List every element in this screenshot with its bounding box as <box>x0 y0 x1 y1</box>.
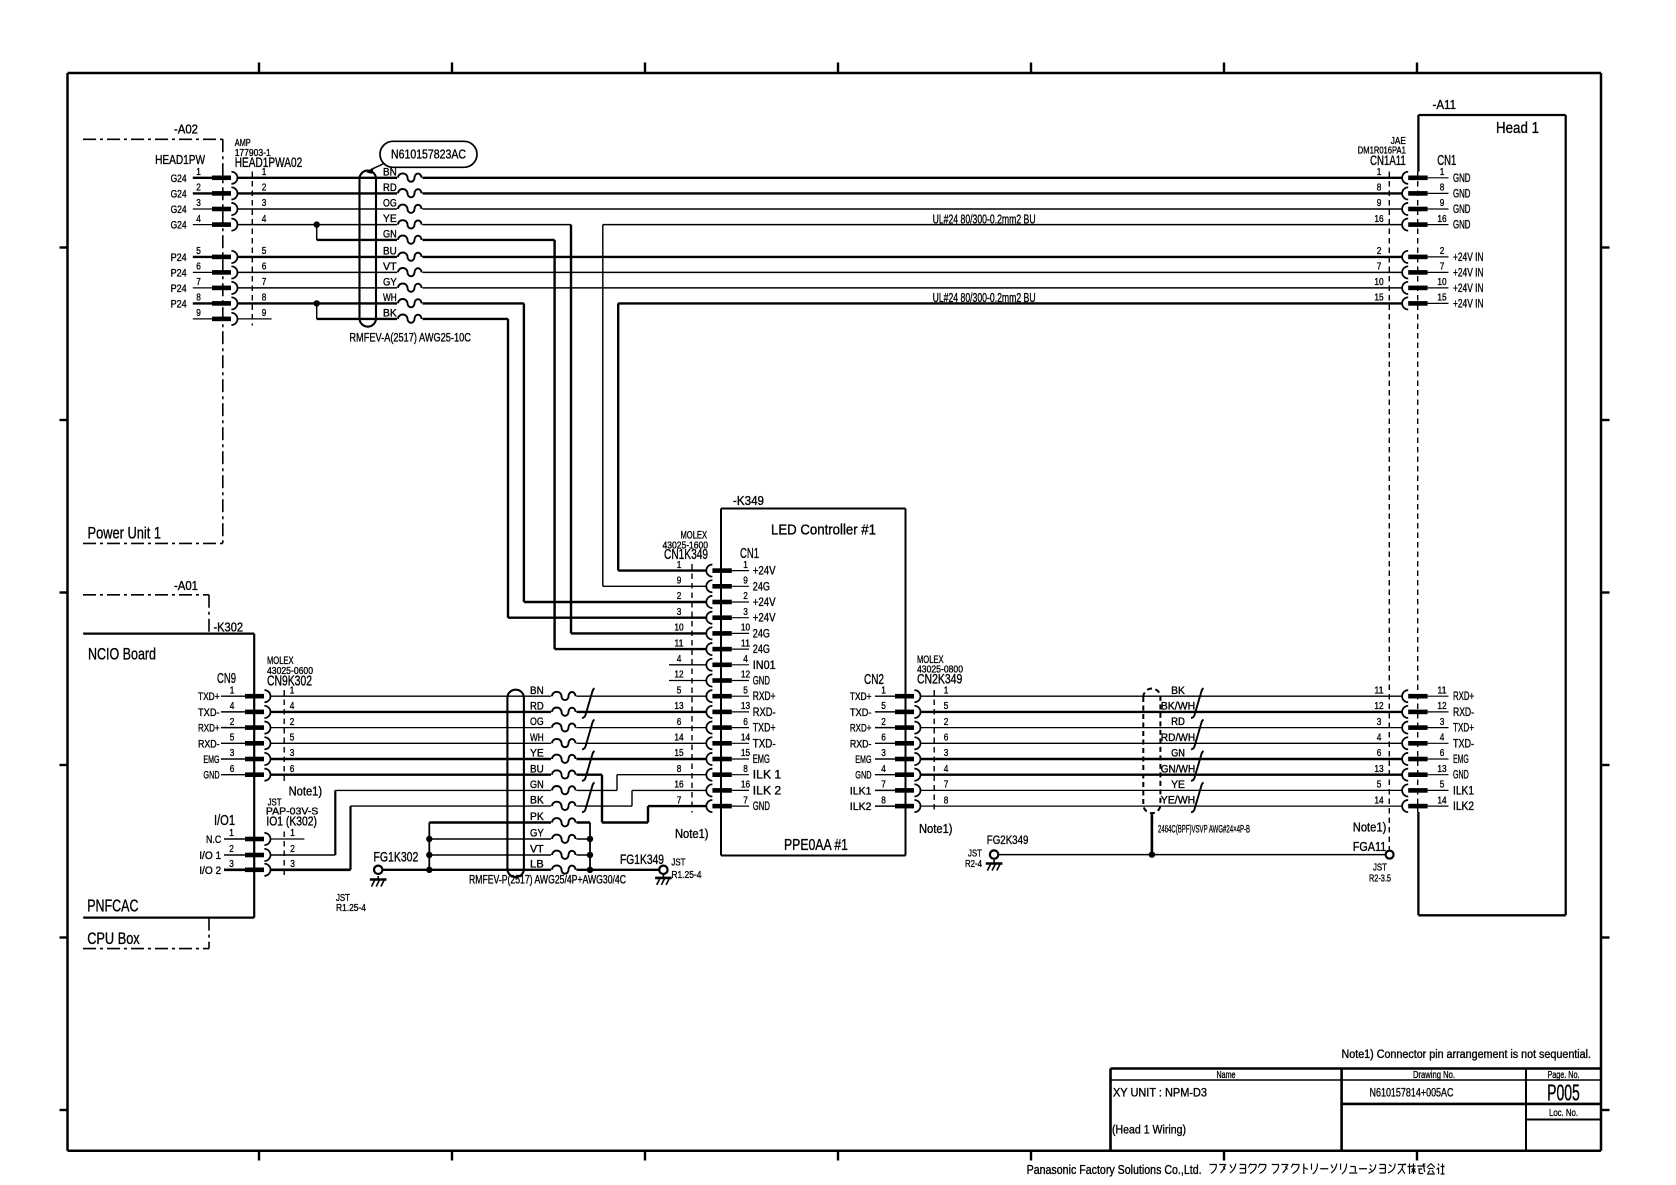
svg-text:PNFCAC: PNFCAC <box>87 896 138 916</box>
svg-text:16: 16 <box>1374 214 1383 225</box>
svg-text:Head 1: Head 1 <box>1496 120 1539 137</box>
wire CN1K349 pin1 lead <box>618 569 706 571</box>
svg-text:EMG: EMG <box>753 754 770 766</box>
connector HEAD1PWA02 pin 4 <box>171 214 267 232</box>
connector IO1 pin 1 <box>206 828 304 846</box>
svg-text:2: 2 <box>944 717 949 728</box>
wire CN1K349 pin10 lead <box>571 632 706 634</box>
svg-text:ILK2: ILK2 <box>850 801 872 813</box>
connector CN1K349 pin 2 <box>677 591 776 609</box>
svg-text:RD/WH: RD/WH <box>1161 732 1196 744</box>
connector CN1K349 pin 11 <box>674 638 770 656</box>
svg-text:6: 6 <box>262 262 267 273</box>
twisted pair slash (2464C) <box>1191 782 1204 812</box>
svg-text:WH: WH <box>383 292 397 304</box>
svg-text:N.C: N.C <box>206 834 221 846</box>
svg-text:15: 15 <box>674 748 683 759</box>
wire BU jog across <box>602 821 648 823</box>
svg-text:3: 3 <box>881 748 886 759</box>
connector HEAD1PWA02 pin 2 <box>171 183 267 201</box>
border tick marks bottom <box>259 1151 1417 1161</box>
connector CN2K349 pin 3 <box>855 748 948 766</box>
wire BK/WH (CN2 to Head1) <box>921 711 1402 713</box>
svg-text:2464C(BPF)VSVP AWG#24×4P-B: 2464C(BPF)VSVP AWG#24×4P-B <box>1158 823 1250 835</box>
svg-text:3: 3 <box>262 198 267 209</box>
svg-text:6: 6 <box>944 733 949 744</box>
svg-text:HEAD1PWA02: HEAD1PWA02 <box>235 155 303 170</box>
svg-text:4: 4 <box>743 654 748 665</box>
svg-text:24G: 24G <box>753 628 770 640</box>
border tick marks top <box>259 63 1417 74</box>
wire BN (CN9 to CN1K349) <box>271 695 707 697</box>
svg-text:14: 14 <box>1374 795 1383 806</box>
svg-text:BN: BN <box>383 166 397 178</box>
connector CN1A11 pin 8 <box>1377 183 1471 201</box>
twisted pair slash (RMFEV-P) <box>582 720 595 750</box>
svg-text:TXD+: TXD+ <box>1453 723 1474 735</box>
wire BK riser to pin16 <box>631 790 633 806</box>
svg-text:10: 10 <box>741 623 750 634</box>
svg-text:6: 6 <box>1377 748 1382 759</box>
wire vertical to CN1K349 pin1 <box>617 303 619 570</box>
svg-text:FGA11: FGA11 <box>1353 839 1386 854</box>
wire CN1K349 pin3 lead <box>508 617 706 619</box>
LED Controller box <box>721 509 906 856</box>
wire CN1K349 pin9 lead <box>603 585 707 587</box>
svg-text:BK: BK <box>530 795 544 807</box>
svg-text:16: 16 <box>741 780 750 791</box>
svg-text:CN1A11: CN1A11 <box>1370 153 1406 168</box>
connector CN1A11 pin 5 <box>1377 780 1474 798</box>
twist hump BN (RMFEV-P) <box>551 690 577 703</box>
twist hump BN (RMFEV-A) <box>397 171 423 184</box>
bundle riser left <box>428 823 430 870</box>
svg-text:4: 4 <box>944 764 949 775</box>
svg-text:2: 2 <box>230 717 235 728</box>
svg-text:+24V IN: +24V IN <box>1453 251 1484 264</box>
connector IO1 pin 2 <box>199 844 295 862</box>
svg-text:-K349: -K349 <box>733 494 764 508</box>
svg-text:13: 13 <box>741 701 750 712</box>
twisted pair slash (2464C) <box>1191 688 1204 718</box>
svg-text:2: 2 <box>290 717 295 728</box>
svg-text:+24V IN: +24V IN <box>1453 266 1484 279</box>
wire BK horizontal <box>317 318 508 320</box>
wire BK riser (I/O1-3) <box>349 806 351 870</box>
wire FG1K302 to bundle <box>382 869 429 871</box>
svg-text:10: 10 <box>1374 277 1383 288</box>
connector CN1A11 pin 9 <box>1377 198 1471 216</box>
svg-text:-A01: -A01 <box>174 579 198 593</box>
svg-text:2: 2 <box>229 844 234 855</box>
svg-text:9: 9 <box>196 308 201 319</box>
connector CN1K349 body (dashed) <box>691 564 693 813</box>
svg-text:8: 8 <box>944 795 949 806</box>
svg-text:PPE0AA #1: PPE0AA #1 <box>784 837 848 854</box>
svg-text:ILK2: ILK2 <box>1453 801 1474 813</box>
svg-text:EMG: EMG <box>1453 754 1469 766</box>
svg-text:5: 5 <box>230 733 235 744</box>
svg-text:2: 2 <box>677 591 682 602</box>
wire GN riser to pin8 <box>616 775 618 791</box>
connector CN1A11 pin 16 <box>1374 214 1470 232</box>
svg-text:P005: P005 <box>1547 1080 1580 1106</box>
junction dot YE branch <box>314 221 320 227</box>
connector HEAD1PWA02 body (dashed) <box>251 172 253 326</box>
svg-text:GND: GND <box>1453 172 1471 185</box>
wire BK (to ILK2) <box>351 805 633 807</box>
twist hump YE (RMFEV-P) <box>551 753 577 766</box>
wire VT <box>429 854 590 856</box>
svg-text:Note1): Note1) <box>289 784 323 799</box>
wire BU (P24-5 to CN1 pin2) <box>237 256 1402 258</box>
svg-text:1: 1 <box>677 560 682 571</box>
svg-text:+24V: +24V <box>753 597 776 609</box>
wire RD/WH (CN2 to Head1) <box>921 742 1402 744</box>
svg-text:BK/WH: BK/WH <box>1161 701 1196 713</box>
svg-text:14: 14 <box>1437 795 1446 806</box>
wire LB to FG1K349 <box>590 869 659 871</box>
svg-text:8: 8 <box>196 293 201 304</box>
connector CN1K349 pin 4 <box>669 654 776 672</box>
svg-text:TXD-: TXD- <box>753 738 776 750</box>
junction dots bundle right <box>587 836 593 873</box>
svg-text:P24: P24 <box>171 298 187 310</box>
svg-text:5: 5 <box>196 246 201 257</box>
connector CN2K349 pin 1 <box>850 685 949 703</box>
twist hump BU (RMFEV-A) <box>397 250 423 263</box>
svg-text:G24: G24 <box>171 220 187 232</box>
wire BN (G24-1 to CN1 pin1) <box>237 177 1402 179</box>
svg-text:JST: JST <box>968 849 982 860</box>
wire YE/WH (CN2 to Head1) <box>921 805 1402 807</box>
svg-text:GN: GN <box>383 229 397 241</box>
-A01 boundary (dash-dot) <box>83 595 209 634</box>
ground symbol FG1K302 <box>370 876 387 887</box>
connector CN1K349 pin 14 <box>674 733 775 751</box>
connector IO1 body (dashed) <box>283 832 285 877</box>
connector CN1K349 pin 12 <box>669 670 770 688</box>
svg-text:TXD-: TXD- <box>1453 738 1474 750</box>
svg-text:GND: GND <box>1453 203 1471 216</box>
svg-text:24G: 24G <box>753 644 770 656</box>
svg-text:GND: GND <box>855 770 871 782</box>
svg-text:3: 3 <box>677 607 682 618</box>
wire to Head1 pin15 <box>618 302 1402 304</box>
connector CN1A11 pin 7 <box>1377 262 1484 280</box>
svg-text:YE: YE <box>530 748 544 760</box>
svg-text:15: 15 <box>741 748 750 759</box>
twist hump WH (RMFEV-A) <box>397 297 423 310</box>
svg-text:8: 8 <box>262 293 267 304</box>
connector CN1A11 pin 6 <box>1377 748 1469 766</box>
svg-text:1: 1 <box>262 167 267 178</box>
svg-text:JST: JST <box>671 858 685 869</box>
wire GY <box>429 838 590 840</box>
svg-text:R2-4: R2-4 <box>965 859 982 870</box>
svg-text:UL#24 80/300-0.2mm2 BU: UL#24 80/300-0.2mm2 BU <box>933 291 1036 305</box>
svg-text:OG: OG <box>530 716 544 728</box>
twist hump BU (RMFEV-P) <box>551 768 577 781</box>
svg-text:RD: RD <box>383 182 397 194</box>
wire to Head1 pin16 <box>603 224 1402 226</box>
svg-text:7: 7 <box>677 795 682 806</box>
twist hump OG (RMFEV-A) <box>397 203 423 216</box>
svg-text:BK: BK <box>1171 685 1185 697</box>
wire I/O1-2 lead <box>271 854 336 856</box>
twisted pair slash (RMFEV-P) <box>582 688 595 718</box>
twist hump WH (RMFEV-P) <box>551 737 577 750</box>
svg-text:RXD+: RXD+ <box>198 723 220 735</box>
svg-text:ILK 2: ILK 2 <box>753 785 781 797</box>
svg-text:12: 12 <box>1374 701 1383 712</box>
wire BK vertical to CN1K349 pin3 <box>507 319 509 618</box>
connector CN2K349 pin 4 <box>855 764 948 782</box>
svg-text:11: 11 <box>1437 685 1446 696</box>
twist hump VT (RMFEV-A) <box>397 266 423 279</box>
connector CN2K349 pin 7 <box>850 780 949 798</box>
connector IO1 pin 3 <box>199 859 295 877</box>
connector CN2K349 pin 2 <box>850 717 949 735</box>
border tick marks left <box>60 248 68 1111</box>
svg-text:1: 1 <box>944 685 949 696</box>
svg-text:G24: G24 <box>171 188 187 200</box>
svg-text:P24: P24 <box>171 252 187 264</box>
wire BU jog down <box>601 775 603 823</box>
svg-text:N610157814+005AC: N610157814+005AC <box>1370 1086 1454 1100</box>
junction dot WH branch <box>314 300 320 306</box>
svg-text:12: 12 <box>741 670 750 681</box>
twist hump VT (RMFEV-P) <box>551 849 577 862</box>
svg-text:OG: OG <box>383 198 397 210</box>
Head 1 box <box>1418 115 1565 915</box>
twist hump LB (RMFEV-P) <box>551 863 577 876</box>
svg-text:EMG: EMG <box>855 754 871 766</box>
connector CN1A11 body (dashed, inner) <box>1417 172 1419 813</box>
svg-text:EMG: EMG <box>203 754 219 766</box>
connector CN2K349 pin 5 <box>850 701 949 719</box>
svg-text:2: 2 <box>1440 246 1445 257</box>
connector CN9K302 pin 6 <box>203 764 294 782</box>
svg-text:PK: PK <box>530 811 544 823</box>
svg-text:RXD-: RXD- <box>198 738 220 750</box>
wire BU (CN9 GND) segment <box>271 774 602 776</box>
svg-text:6: 6 <box>881 733 886 744</box>
shield drain wire <box>1151 813 1154 854</box>
wire YE (G24-4 segment) <box>237 224 571 226</box>
twist hump GY (RMFEV-A) <box>397 281 423 294</box>
svg-text:+24V IN: +24V IN <box>1453 282 1484 295</box>
svg-text:Note1): Note1) <box>919 821 953 836</box>
svg-text:-A02: -A02 <box>174 123 198 137</box>
connector CN9K302 pin 5 <box>198 733 294 751</box>
wire WH (CN9 to CN1K349) <box>271 742 707 744</box>
svg-text:3: 3 <box>1440 717 1445 728</box>
svg-text:16: 16 <box>1437 214 1446 225</box>
svg-text:1: 1 <box>743 560 748 571</box>
connector CN9K302 body (dashed) <box>283 690 285 781</box>
svg-text:BU: BU <box>383 246 397 258</box>
connector CN9K302 pin 3 <box>203 748 294 766</box>
wire RD (CN9 to CN1K349) <box>271 711 707 713</box>
wire LB <box>429 869 590 871</box>
svg-text:TXD-: TXD- <box>198 707 220 719</box>
svg-text:7: 7 <box>1377 262 1382 273</box>
wire GN vertical to CN1K349 pin11 <box>553 240 555 649</box>
connector CN1A11 pin 13 <box>1374 764 1468 782</box>
svg-text:RD: RD <box>530 701 544 713</box>
svg-text:RXD+: RXD+ <box>753 691 776 703</box>
wire GN horizontal <box>317 239 555 241</box>
svg-text:GND: GND <box>753 676 770 688</box>
wire vertical to CN1K349 pin9 <box>602 225 604 587</box>
svg-text:RXD-: RXD- <box>753 707 776 719</box>
svg-text:GN: GN <box>530 779 544 791</box>
svg-text:3: 3 <box>743 607 748 618</box>
svg-text:+24V: +24V <box>753 566 776 578</box>
svg-text:P24: P24 <box>171 283 187 295</box>
svg-text:+24V IN: +24V IN <box>1453 297 1484 310</box>
svg-text:Drawing No.: Drawing No. <box>1413 1070 1455 1081</box>
svg-text:GY: GY <box>530 828 544 840</box>
terminal FG2K349 (ring) <box>990 850 998 858</box>
svg-text:Name: Name <box>1217 1070 1236 1081</box>
twisted pair slash (RMFEV-P) <box>582 751 595 781</box>
svg-text:RXD-: RXD- <box>1453 707 1474 719</box>
wire CN1K349 pin11 lead <box>555 648 707 650</box>
twist hump YE (RMFEV-A) <box>397 218 423 231</box>
svg-text:11: 11 <box>1374 685 1383 696</box>
svg-text:GND: GND <box>1453 187 1471 200</box>
svg-text:6: 6 <box>743 717 748 728</box>
svg-text:R2-3.5: R2-3.5 <box>1369 874 1391 885</box>
svg-text:6: 6 <box>230 764 235 775</box>
wire GN (CN2 to Head1) <box>921 758 1402 760</box>
svg-text:6: 6 <box>196 262 201 273</box>
svg-text:2: 2 <box>743 591 748 602</box>
twisted pair slash (2464C) <box>1191 751 1204 781</box>
svg-text:-K302: -K302 <box>214 621 244 635</box>
wire BK branch drop <box>316 303 318 319</box>
wire WH vertical to CN1K349 pin2 <box>523 303 525 602</box>
cable sheath 2464C (dashed stadium) <box>1143 689 1160 814</box>
svg-text:VT: VT <box>383 261 397 273</box>
border tick marks right <box>1601 248 1610 1111</box>
svg-text:3: 3 <box>290 859 295 870</box>
svg-text:GND: GND <box>753 801 770 813</box>
svg-text:G24: G24 <box>171 204 187 216</box>
svg-text:4: 4 <box>1440 733 1445 744</box>
terminal FGA11 (ring) <box>1386 851 1394 859</box>
wire GN (to ILK1) <box>335 789 617 791</box>
svg-text:5: 5 <box>743 685 748 696</box>
junction dot shield drain <box>1149 851 1155 857</box>
svg-text:16: 16 <box>674 780 683 791</box>
wire YE (CN2 to Head1) <box>921 789 1402 791</box>
connector CN1K349 pin 9 <box>677 576 770 594</box>
svg-text:FG1K302: FG1K302 <box>374 849 419 865</box>
svg-text:8: 8 <box>1440 183 1445 194</box>
twist hump RD (RMFEV-A) <box>397 187 423 200</box>
svg-text:Note1): Note1) <box>675 826 709 841</box>
svg-text:7: 7 <box>262 277 267 288</box>
svg-text:12: 12 <box>674 670 683 681</box>
svg-text:TXD+: TXD+ <box>850 691 872 703</box>
connector CN1A11 pin 1 <box>1377 167 1471 185</box>
twist hump OG (RMFEV-P) <box>551 721 577 734</box>
svg-text:5: 5 <box>881 701 886 712</box>
svg-text:Panasonic Factory Solutions Co: Panasonic Factory Solutions Co.,Ltd. <box>1027 1162 1202 1177</box>
cable sheath RMFEV-A (stadium) <box>360 171 377 327</box>
connector CN1K349 pin 10 <box>674 623 770 641</box>
svg-text:6: 6 <box>677 717 682 728</box>
wire ILK1 lead <box>617 774 706 776</box>
svg-text:FG1K349: FG1K349 <box>620 851 664 867</box>
connector CN1A11 pin 14 <box>1374 795 1474 813</box>
svg-text:WH: WH <box>530 732 544 744</box>
svg-text:4: 4 <box>290 701 295 712</box>
svg-text:ILK 1: ILK 1 <box>753 770 781 782</box>
svg-text:5: 5 <box>1440 780 1445 791</box>
svg-text:13: 13 <box>674 701 683 712</box>
connector CN2K349 pin 8 <box>850 795 949 813</box>
svg-text:14: 14 <box>741 733 750 744</box>
svg-text:1: 1 <box>196 167 201 178</box>
svg-text:4: 4 <box>196 214 201 225</box>
svg-text:3: 3 <box>1377 717 1382 728</box>
title block grid <box>1111 1069 1602 1151</box>
svg-text:5: 5 <box>944 701 949 712</box>
svg-text:R1.25-4: R1.25-4 <box>671 870 701 881</box>
wire OG (G24-3 to CN1 pin9) <box>237 208 1402 210</box>
svg-text:RMFEV-A(2517) AWG25-10C: RMFEV-A(2517) AWG25-10C <box>349 330 471 344</box>
svg-text:VT: VT <box>530 844 544 856</box>
connector CN1K349 pin 13 <box>674 701 775 719</box>
svg-text:10: 10 <box>674 623 683 634</box>
svg-text:1: 1 <box>881 685 886 696</box>
svg-text:1: 1 <box>1440 167 1445 178</box>
connector CN1A11 pin 10 <box>1374 277 1483 295</box>
svg-text:9: 9 <box>262 308 267 319</box>
terminal FG1K302 (ring) <box>374 866 382 874</box>
svg-text:BK: BK <box>383 308 397 320</box>
svg-text:CPU Box: CPU Box <box>87 929 140 948</box>
svg-text:6: 6 <box>290 764 295 775</box>
connector HEAD1PWA02 pin 8 <box>171 293 267 311</box>
svg-text:1: 1 <box>1377 167 1382 178</box>
svg-text:RD: RD <box>1171 716 1185 728</box>
svg-text:ILK1: ILK1 <box>1453 785 1474 797</box>
svg-text:RXD+: RXD+ <box>850 723 872 735</box>
svg-text:9: 9 <box>1377 198 1382 209</box>
connector CN1A11 pin 4 <box>1377 733 1474 751</box>
svg-text:N610157823AC: N610157823AC <box>391 147 466 162</box>
svg-text:GN/WH: GN/WH <box>1161 763 1196 775</box>
svg-text:I/O 1: I/O 1 <box>199 850 221 862</box>
svg-text:1: 1 <box>230 685 235 696</box>
cable callout balloon N610157823AC <box>380 141 477 167</box>
twist hump RD (RMFEV-P) <box>551 705 577 718</box>
svg-text:24G: 24G <box>753 581 770 593</box>
wire RD (CN2 to Head1) <box>921 727 1402 729</box>
connector CN9K302 pin 1 <box>198 685 294 703</box>
svg-text:2: 2 <box>290 844 295 855</box>
connector HEAD1PWA02 pin 9 <box>193 308 272 325</box>
svg-text:TXD+: TXD+ <box>198 691 220 703</box>
svg-text:5: 5 <box>1377 780 1382 791</box>
wire BU to CN1K349 pin7 <box>648 805 706 807</box>
svg-text:P24: P24 <box>171 267 187 279</box>
